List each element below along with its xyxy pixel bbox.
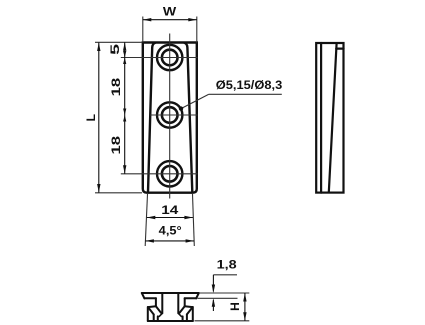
L dimension line (98, 43, 100, 193)
section neck wall left (155, 298, 157, 306)
thin lines: centerlines and extension lines (95, 17, 282, 321)
section flange bottom right (185, 297, 197, 299)
section bottom edge (148, 320, 193, 322)
side view inner edge line (320, 43, 322, 193)
dimension lines with arrows (97, 18, 246, 321)
svg-text:L: L (84, 114, 98, 121)
section barb top right (185, 305, 193, 308)
section foot inner wall right (186, 314, 188, 321)
side view taper line (329, 43, 337, 192)
W extension line right (196, 17, 198, 43)
section hole wall right (177, 294, 179, 313)
section foot outer wall right (192, 307, 194, 321)
svg-text:5: 5 (108, 43, 122, 55)
section hole wall junction right (178, 313, 181, 316)
section foot hash left (157, 316, 159, 321)
plate outline front view (143, 43, 197, 193)
svg-text:4,5°: 4,5° (159, 223, 182, 237)
side view flange step line (336, 47, 343, 49)
section barb diagonal outer right (187, 307, 193, 314)
side view outline (316, 43, 343, 193)
section foot inner wall left (153, 314, 155, 321)
svg-text:18: 18 (109, 77, 123, 96)
hole 1 bore (162, 50, 178, 66)
W extension line left (142, 17, 144, 43)
section flange top (142, 292, 199, 294)
leader shelf of hole label (209, 93, 282, 95)
section flange right end (196, 293, 199, 298)
leader slant of hole label (181, 94, 209, 108)
section barb diagonal outer left (148, 307, 154, 314)
W dimension line (143, 19, 197, 21)
hole 2 centerline (150, 114, 198, 116)
4,5 degree dimension line (145, 240, 194, 242)
hole 1 counterbore (157, 45, 182, 70)
section flange bottom left (144, 297, 156, 299)
vertical centerline (169, 34, 171, 199)
14 extension line right (193, 194, 195, 246)
1,8 dimension leader with outside arrows (212, 275, 214, 292)
svg-text:18: 18 (109, 136, 123, 155)
svg-text:Ø5,15/Ø8,3: Ø5,15/Ø8,3 (216, 78, 283, 92)
section barb top left (148, 305, 156, 308)
section hole wall left (161, 294, 163, 313)
L extension line top (95, 41, 142, 43)
hole 3 centerline (121, 173, 198, 175)
section flange left end (142, 293, 145, 298)
hole 1 centerline (121, 57, 198, 59)
tapered side line left (148, 43, 155, 192)
14 dimension line (147, 217, 193, 219)
section barb diagonal inner right (180, 306, 185, 313)
section barb diagonal inner left (156, 306, 161, 313)
H dimension line (244, 293, 246, 321)
section foot outer wall left (147, 307, 149, 321)
section foot hash right (182, 316, 184, 321)
svg-text:14: 14 (161, 203, 178, 217)
leader dot at hole 2 (179, 106, 183, 110)
1,8 leader shelf (213, 274, 237, 276)
svg-text:1,8: 1,8 (217, 257, 237, 271)
hole 2 bore (162, 107, 178, 123)
section bottom extension (195, 320, 250, 322)
L extension line bottom (95, 192, 142, 194)
section view bottom (142, 293, 199, 321)
section flange bottom extension (198, 297, 238, 299)
side view (316, 43, 343, 193)
hole 2 counterbore (157, 102, 182, 127)
svg-text:W: W (163, 4, 177, 18)
hole 3 bore (162, 166, 178, 182)
section hole wall junction left (159, 313, 162, 316)
svg-text:H: H (228, 302, 242, 311)
section neck wall right (184, 298, 186, 306)
hole 3 counterbore (157, 161, 182, 186)
chain dimension line 5-18-18 (124, 42, 126, 174)
section flange top extension (200, 292, 249, 294)
tapered side line right (184, 43, 192, 192)
14 extension line left (145, 194, 147, 246)
